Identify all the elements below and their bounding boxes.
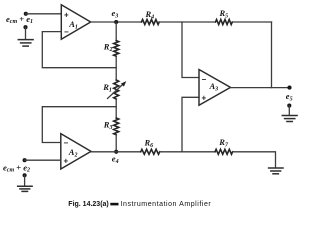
output terminal dot e5 <box>287 86 291 90</box>
svg-text:R3: R3 <box>103 120 113 132</box>
node dot to ground (top-left) <box>23 25 27 29</box>
wire A3 non-inverting input down to bottom rail <box>182 97 199 152</box>
svg-text:Instrumentation Amplifier: Instrumentation Amplifier <box>121 201 212 208</box>
arrow of variable resistor R1 <box>108 83 125 99</box>
svg-text:+: + <box>64 157 69 166</box>
svg-text:e3: e3 <box>112 8 119 20</box>
node dot to ground (bottom-left) <box>23 173 27 177</box>
resistor R4 <box>142 20 160 25</box>
input terminal dot e_cm+e1 <box>24 12 28 16</box>
wire input1 to A1 + <box>26 13 62 15</box>
wire junction down to A3 inverting input <box>182 22 199 78</box>
svg-text:−: − <box>202 75 207 84</box>
resistor R3 <box>114 118 119 135</box>
wire R4 to junction <box>159 21 215 23</box>
wire e3 down to R2 <box>115 22 117 41</box>
wire R6 to junction <box>160 151 215 153</box>
resistor R5 <box>216 20 233 25</box>
svg-text:e4: e4 <box>112 154 119 166</box>
svg-text:R1: R1 <box>102 82 112 94</box>
op-amp A3 <box>199 70 231 106</box>
wire A2 inverting input loop <box>42 107 116 143</box>
ground (right, under e5) <box>282 116 297 122</box>
wire R2 to junction <box>115 56 117 80</box>
ground (top-left) <box>18 40 33 47</box>
svg-text:R5: R5 <box>219 8 229 20</box>
svg-text:A2: A2 <box>68 147 78 159</box>
svg-text:ecm + e1: ecm + e1 <box>6 14 33 25</box>
op-amp A2 <box>61 134 91 169</box>
resistor R7 <box>215 149 233 154</box>
wire R7 to corner <box>233 152 276 168</box>
wire input2 to A2 + <box>25 159 61 161</box>
resistor R6 <box>141 149 160 154</box>
ground (bottom-left) <box>18 186 32 191</box>
svg-text:A1: A1 <box>68 19 78 31</box>
wire A1 output to node e3 <box>91 21 142 23</box>
svg-text:R6: R6 <box>144 137 154 149</box>
wire feedback vertical right <box>271 22 273 88</box>
ground (bottom-right) <box>269 168 283 174</box>
node e3 <box>114 20 118 24</box>
node e4 <box>114 150 118 154</box>
resistor R1 (variable) <box>114 80 119 99</box>
wire A3 output to e5 <box>231 87 290 89</box>
svg-text:−: − <box>64 138 69 147</box>
wire R5 to corner <box>232 21 271 23</box>
svg-text:+: + <box>202 94 207 103</box>
input terminal dot e_cm+e2 <box>23 158 27 162</box>
caption separator bar <box>110 203 118 206</box>
wire A1 inverting input loop <box>42 32 116 68</box>
resistor R2 <box>114 41 119 57</box>
wire stem <box>288 106 290 116</box>
svg-text:e5: e5 <box>286 91 293 103</box>
svg-text:R4: R4 <box>145 9 155 21</box>
node dot to ground (right) <box>287 104 291 108</box>
wire A2 output / bottom rail <box>91 151 141 153</box>
wire R1 to junction <box>115 99 117 118</box>
svg-text:ecm + e2: ecm + e2 <box>3 162 30 173</box>
svg-text:R2: R2 <box>103 42 113 54</box>
svg-text:R7: R7 <box>218 137 229 149</box>
svg-text:Fig. 14.23(a): Fig. 14.23(a) <box>68 201 108 208</box>
wire stem to ground <box>25 27 27 39</box>
wire stem to ground <box>24 175 26 186</box>
svg-text:A3: A3 <box>209 81 219 93</box>
op-amp A1 <box>61 5 90 39</box>
wire R3 to node e4 <box>115 135 117 152</box>
